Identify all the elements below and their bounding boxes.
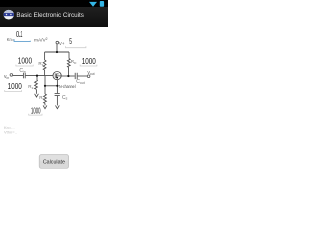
svg-text:1000: 1000 xyxy=(82,57,96,66)
svg-text:1000: 1000 xyxy=(31,107,41,116)
svg-text:vin: vin xyxy=(4,74,9,80)
svg-text:0: 0 xyxy=(16,30,20,39)
svg-text:R2: R2 xyxy=(28,84,33,90)
svg-text:5: 5 xyxy=(69,37,72,46)
svg-text:Basic Electronic Circuits: Basic Electronic Circuits xyxy=(16,12,84,19)
svg-text:Cs: Cs xyxy=(62,95,68,101)
svg-text:1: 1 xyxy=(21,30,23,39)
svg-text:1000: 1000 xyxy=(8,82,23,91)
svg-text:Vthn=..: Vthn=.. xyxy=(4,130,17,135)
svg-text:1000: 1000 xyxy=(18,57,33,66)
svg-text:Cout: Cout xyxy=(76,79,85,85)
svg-text:V+: V+ xyxy=(59,41,65,46)
svg-text:Calculate: Calculate xyxy=(43,159,65,165)
svg-text:Kn=: Kn= xyxy=(7,37,15,43)
svg-text:N-channel: N-channel xyxy=(59,84,76,89)
svg-text:Cin: Cin xyxy=(19,68,25,74)
svg-text:mA/V2: mA/V2 xyxy=(34,37,48,44)
svg-text:R1: R1 xyxy=(38,61,43,67)
svg-text:RS: RS xyxy=(39,95,44,101)
svg-text:RD: RD xyxy=(71,59,77,65)
svg-text:vout: vout xyxy=(87,70,94,76)
